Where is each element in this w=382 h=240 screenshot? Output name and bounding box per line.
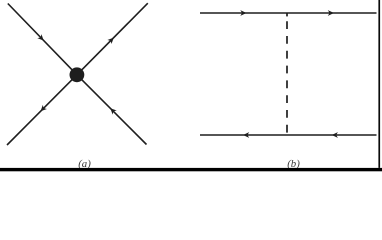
arrow on top line left segment (pointing right) (240, 10, 246, 16)
wire: bottom fermion line (200, 134, 377, 136)
arrow on top-left line (pointing toward vertex) (37, 34, 45, 42)
wire: incoming fermion line top-left (8, 4, 77, 75)
arrow on bottom-left line (pointing away from vertex) (38, 105, 46, 113)
bottom rule: thick black bar (0, 168, 382, 171)
wire: outgoing fermion line bottom-left (7, 75, 77, 145)
wire: outgoing fermion line top-right (77, 3, 148, 75)
arrow on top-right line (pointing away from vertex) (107, 36, 115, 44)
arrow on bottom-right line (pointing toward vertex) (108, 106, 116, 114)
propagator: dashed exchange line stub at top vertex (286, 13, 288, 16)
arrow on top line right segment (pointing right) (328, 10, 334, 16)
wire: incoming fermion line bottom-right (77, 75, 147, 145)
wire: top fermion line (200, 12, 377, 14)
propagator: dashed exchange boson line (286, 21, 288, 132)
right border line (378, 0, 380, 168)
vertex: filled interaction blob (70, 67, 85, 82)
arrow on bottom line left segment (pointing left) (243, 132, 249, 138)
arrow on bottom line right segment (pointing left) (332, 132, 338, 138)
